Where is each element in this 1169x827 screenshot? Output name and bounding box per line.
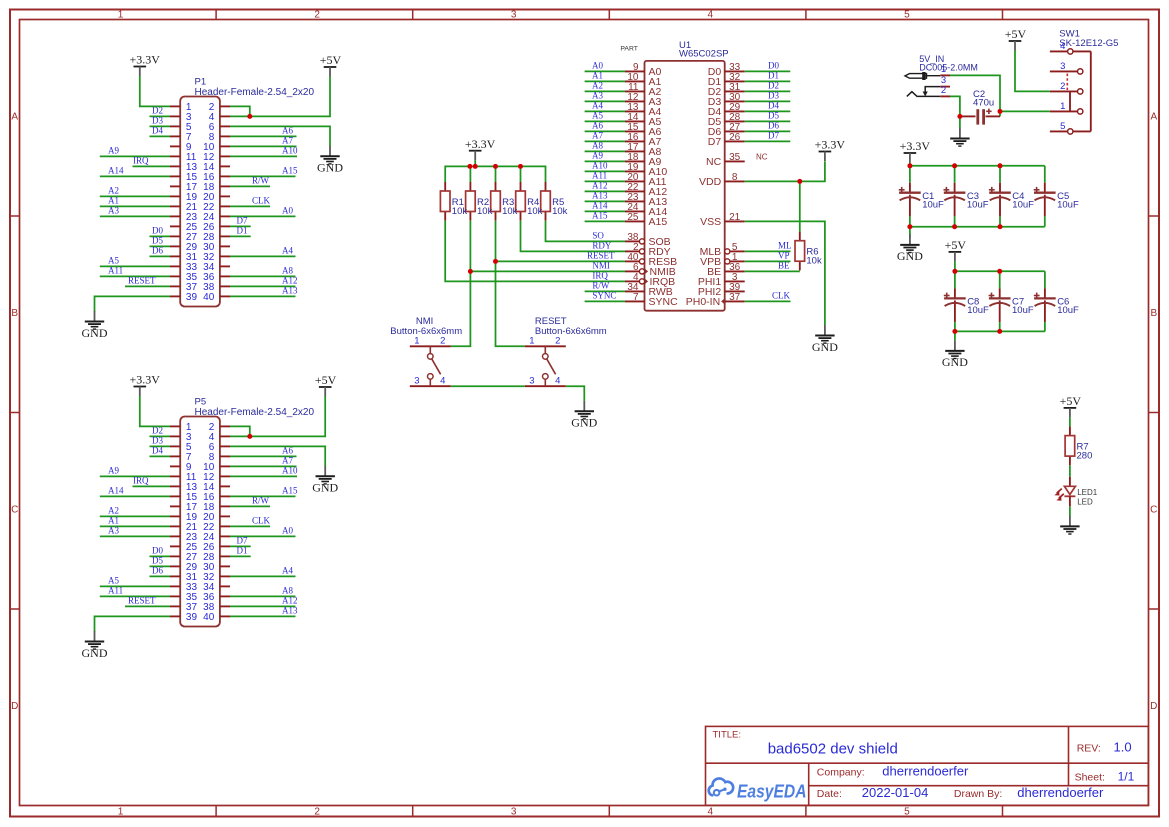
svg-text:A8: A8 bbox=[592, 140, 603, 150]
pin 34 RWB of U1 bbox=[625, 282, 673, 298]
svg-text:5: 5 bbox=[904, 10, 910, 21]
pin 23 A13 of U1 bbox=[625, 192, 667, 208]
svg-text:R/W: R/W bbox=[252, 176, 270, 186]
wire net A11 to U1 bbox=[585, 170, 625, 181]
junction bbox=[907, 224, 912, 229]
svg-text:DC005-2.0MM: DC005-2.0MM bbox=[919, 62, 978, 72]
wire net D1 to P1 pin 28 bbox=[230, 226, 251, 237]
wire net D4 to P5 pin 7 bbox=[150, 446, 171, 457]
pin 3 PHI1 of U1 bbox=[698, 272, 745, 288]
svg-text:SO: SO bbox=[592, 231, 604, 241]
svg-text:A13: A13 bbox=[282, 606, 298, 616]
wire net RESET to P5 pin 37 bbox=[125, 596, 170, 607]
wire net A0 to U1 bbox=[585, 60, 625, 71]
svg-text:A10: A10 bbox=[282, 146, 298, 156]
svg-text:10uF: 10uF bbox=[1057, 199, 1079, 210]
svg-text:A2: A2 bbox=[592, 80, 603, 90]
svg-text:D: D bbox=[1150, 701, 1157, 712]
svg-text:1: 1 bbox=[414, 336, 419, 347]
svg-text:ML: ML bbox=[778, 241, 792, 251]
pin 8 VDD of U1 bbox=[699, 172, 745, 188]
wire net A2 to P5 pin 19 bbox=[100, 506, 170, 517]
wire +5V to R7 bbox=[1069, 417, 1071, 426]
svg-text:21: 21 bbox=[729, 212, 741, 223]
pin 7 SYNC of U1 bbox=[625, 292, 678, 308]
svg-text:470u: 470u bbox=[973, 98, 994, 109]
pin 15 A6 of U1 bbox=[625, 122, 662, 138]
wire net A13 to U1 bbox=[585, 190, 625, 201]
svg-text:A11: A11 bbox=[108, 586, 123, 596]
wire net A1 to P5 pin 21 bbox=[100, 516, 170, 527]
pin 31 D2 of U1 bbox=[708, 82, 745, 98]
svg-text:10k: 10k bbox=[527, 206, 543, 217]
wire net D0 to P5 pin 27 bbox=[150, 546, 171, 557]
svg-text:A11: A11 bbox=[592, 170, 607, 180]
wire net D4 to P1 pin 7 bbox=[150, 126, 171, 137]
svg-text:+3.3V: +3.3V bbox=[815, 138, 846, 152]
pin 24 A14 of U1 bbox=[625, 202, 667, 218]
ground at P1 pin 6 bbox=[317, 146, 343, 175]
svg-text:280: 280 bbox=[1077, 451, 1093, 462]
LED LED1 bbox=[1054, 477, 1097, 507]
resistor R7 280 bbox=[1065, 427, 1092, 466]
svg-text:D5: D5 bbox=[152, 556, 163, 566]
svg-text:PH0-IN: PH0-IN bbox=[686, 296, 720, 308]
svg-text:B: B bbox=[11, 308, 18, 319]
svg-text:3: 3 bbox=[1060, 61, 1065, 72]
svg-text:2: 2 bbox=[941, 85, 946, 96]
svg-text:D2: D2 bbox=[768, 81, 779, 91]
svg-text:37: 37 bbox=[729, 292, 741, 303]
svg-text:GND: GND bbox=[812, 340, 838, 354]
svg-text:10uF: 10uF bbox=[1057, 305, 1079, 316]
wire net A1 to P1 pin 21 bbox=[100, 196, 170, 207]
wire net A8 to P1 pin 36 bbox=[230, 266, 296, 277]
svg-text:Date:: Date: bbox=[817, 788, 842, 800]
junction bbox=[997, 269, 1002, 274]
capacitor C7 10uF bbox=[989, 288, 1034, 322]
wire net A0 to P5 pin 24 bbox=[230, 526, 296, 537]
pin 37 PH0-IN of U1 bbox=[686, 292, 745, 308]
wire jack pin 1 to switch bbox=[950, 75, 1000, 116]
svg-text:REV:: REV: bbox=[1077, 743, 1101, 755]
pin 25 A15 of U1 bbox=[625, 212, 667, 228]
svg-text:CLK: CLK bbox=[252, 196, 271, 206]
svg-text:2022-01-04: 2022-01-04 bbox=[862, 785, 929, 800]
resistor R3 10k bbox=[491, 182, 518, 221]
svg-text:A14: A14 bbox=[108, 486, 124, 496]
svg-text:39: 39 bbox=[186, 612, 198, 623]
svg-text:D4: D4 bbox=[768, 101, 779, 111]
svg-text:dherrendoerfer: dherrendoerfer bbox=[1017, 785, 1104, 800]
wire net A3 to P5 pin 23 bbox=[100, 526, 170, 537]
capacitor C8 10uF bbox=[944, 288, 989, 322]
pin 21 VSS of U1 bbox=[700, 212, 745, 228]
wire +3.3V to P5 pin 1 bbox=[140, 396, 170, 426]
svg-text:A3: A3 bbox=[592, 90, 603, 100]
resistor R6 10k bbox=[795, 232, 822, 271]
svg-text:A5: A5 bbox=[592, 110, 603, 120]
wire net A11 to P1 pin 35 bbox=[100, 266, 170, 277]
capacitor C5 10uF bbox=[1034, 183, 1079, 217]
wire P5 pin 6 to GND bbox=[230, 446, 325, 466]
svg-text:VSS: VSS bbox=[700, 216, 721, 228]
svg-text:39: 39 bbox=[186, 292, 198, 303]
junction bbox=[247, 434, 252, 439]
svg-text:5: 5 bbox=[904, 807, 910, 818]
svg-text:VP: VP bbox=[778, 251, 790, 261]
wire net A9 to P5 pin 11 bbox=[100, 466, 170, 477]
svg-text:10uF: 10uF bbox=[922, 199, 944, 210]
svg-text:A12: A12 bbox=[282, 596, 298, 606]
svg-text:D6: D6 bbox=[152, 246, 163, 256]
wire net VDD to +3.3V bbox=[745, 161, 825, 181]
svg-text:SYNC: SYNC bbox=[649, 296, 679, 308]
pin 17 A8 of U1 bbox=[625, 142, 662, 158]
svg-text:10uF: 10uF bbox=[1012, 199, 1034, 210]
svg-text:D3: D3 bbox=[152, 116, 163, 126]
svg-text:SYNC: SYNC bbox=[592, 291, 616, 301]
svg-text:D5: D5 bbox=[768, 111, 779, 121]
wire net D1 from U1 bbox=[745, 71, 791, 82]
svg-text:A: A bbox=[11, 111, 18, 122]
svg-text:A14: A14 bbox=[108, 166, 124, 176]
svg-text:D3: D3 bbox=[768, 91, 779, 101]
wire jack pin 2 to C2 bbox=[950, 96, 960, 116]
no-connect flag NC on U1 pin 35 bbox=[756, 152, 768, 161]
pin 14 A5 of U1 bbox=[625, 112, 662, 128]
svg-text:Header-Female-2.54_2x20: Header-Female-2.54_2x20 bbox=[195, 87, 315, 98]
pin 29 D4 of U1 bbox=[708, 102, 745, 118]
svg-text:4: 4 bbox=[1060, 41, 1065, 52]
junction bbox=[468, 269, 473, 274]
wire net A15 to P1 pin 16 bbox=[230, 166, 298, 177]
svg-text:A7: A7 bbox=[592, 130, 603, 140]
svg-text:D1: D1 bbox=[237, 546, 248, 556]
wire LED1 to GND bbox=[1069, 506, 1071, 516]
svg-text:2: 2 bbox=[440, 336, 445, 347]
wire net IRQ to P5 pin 13 bbox=[133, 476, 171, 487]
power +5V at capacitor bank 2 bbox=[945, 238, 967, 261]
svg-text:A15: A15 bbox=[649, 216, 668, 228]
svg-text:C: C bbox=[11, 504, 18, 515]
svg-text:A: A bbox=[1150, 111, 1157, 122]
wire net RESET from R3 to U1 RESB and RESET button bbox=[496, 221, 626, 347]
junction bbox=[952, 269, 957, 274]
svg-text:R/W: R/W bbox=[592, 281, 610, 291]
junction bbox=[467, 164, 472, 169]
wire net VP from U1 VPB bbox=[745, 251, 791, 262]
wire net A14 to P1 pin 15 bbox=[100, 166, 170, 177]
svg-text:+3.3V: +3.3V bbox=[130, 373, 161, 387]
svg-text:EasyEDA: EasyEDA bbox=[737, 782, 807, 802]
wire net BE from U1 to R6 bbox=[745, 261, 800, 272]
svg-text:1.0: 1.0 bbox=[1114, 740, 1132, 755]
svg-text:W65C02SP: W65C02SP bbox=[679, 49, 729, 60]
svg-text:D7: D7 bbox=[237, 216, 248, 226]
EasyEDA logo bbox=[709, 778, 807, 801]
junction bbox=[247, 114, 252, 119]
svg-text:A4: A4 bbox=[282, 246, 293, 256]
svg-text:+3.3V: +3.3V bbox=[465, 137, 496, 151]
wire net D2 from U1 bbox=[745, 81, 791, 92]
pin 19 A10 of U1 bbox=[625, 162, 667, 178]
junction bbox=[952, 163, 957, 168]
junction bbox=[952, 224, 957, 229]
wire net RESET to P1 pin 37 bbox=[125, 276, 170, 287]
wire net CLK to U1 PH0-IN bbox=[745, 291, 791, 302]
svg-text:A13: A13 bbox=[592, 190, 608, 200]
svg-text:A4: A4 bbox=[592, 100, 603, 110]
svg-text:8: 8 bbox=[732, 172, 738, 183]
svg-text:P5: P5 bbox=[195, 397, 207, 408]
svg-text:D7: D7 bbox=[768, 131, 779, 141]
power +3.3V at P5 pin 1 bbox=[130, 373, 161, 396]
wire net A10 to P1 pin 12 bbox=[230, 146, 298, 157]
svg-text:PART: PART bbox=[620, 45, 638, 52]
svg-text:D4: D4 bbox=[152, 446, 163, 456]
svg-text:2: 2 bbox=[314, 10, 320, 21]
svg-text:40: 40 bbox=[203, 292, 215, 303]
ground at capacitor bank bbox=[897, 234, 923, 263]
pin 1 VPB of U1 bbox=[700, 252, 745, 268]
svg-text:GND: GND bbox=[317, 161, 343, 175]
svg-text:10uF: 10uF bbox=[1012, 305, 1034, 316]
ground at LED1 bbox=[1060, 516, 1079, 534]
svg-text:A13: A13 bbox=[282, 286, 298, 296]
wire capacitor bank 2 to GND rail bbox=[955, 322, 1045, 340]
svg-text:A1: A1 bbox=[592, 70, 603, 80]
svg-text:Company:: Company: bbox=[817, 767, 865, 779]
pin 27 D6 of U1 bbox=[708, 122, 745, 138]
wire net A8 to U1 bbox=[585, 140, 625, 151]
svg-text:RESET: RESET bbox=[128, 596, 156, 606]
svg-text:10k: 10k bbox=[806, 256, 822, 267]
svg-text:40: 40 bbox=[203, 612, 215, 623]
svg-text:1: 1 bbox=[529, 336, 534, 347]
junction bbox=[797, 179, 802, 184]
svg-text:GND: GND bbox=[571, 416, 597, 430]
switch NMI Button-6x6x6mm bbox=[390, 316, 462, 386]
wire net A5 to U1 bbox=[585, 110, 625, 121]
svg-text:1/1: 1/1 bbox=[1118, 769, 1135, 783]
svg-text:D4: D4 bbox=[152, 126, 163, 136]
op-amp U1 W65C02SP microprocessor bbox=[620, 40, 728, 311]
svg-text:10k: 10k bbox=[477, 206, 493, 217]
pin 36 BE of U1 bbox=[707, 262, 745, 278]
svg-text:LED1: LED1 bbox=[1077, 488, 1098, 497]
svg-text:A9: A9 bbox=[592, 150, 603, 160]
svg-text:A0: A0 bbox=[282, 206, 293, 216]
wire net A10 to P5 pin 12 bbox=[230, 466, 298, 477]
capacitor C6 10uF bbox=[1034, 288, 1079, 322]
svg-text:A5: A5 bbox=[108, 256, 119, 266]
wire net D2 to P5 pin 3 bbox=[150, 426, 171, 437]
svg-text:D6: D6 bbox=[768, 121, 779, 131]
svg-text:A15: A15 bbox=[282, 486, 298, 496]
wire net SO from R5 to U1 bbox=[546, 221, 626, 242]
svg-text:GND: GND bbox=[82, 326, 108, 340]
wire net CLK to P5 pin 22 bbox=[230, 516, 271, 527]
wire +3.3V capacitor rail bbox=[910, 163, 1045, 183]
svg-text:A9: A9 bbox=[108, 466, 119, 476]
svg-text:25: 25 bbox=[627, 212, 639, 223]
svg-text:Button-6x6x6mm: Button-6x6x6mm bbox=[390, 326, 462, 337]
junction bbox=[518, 164, 523, 169]
wire net D7 to P1 pin 26 bbox=[230, 216, 251, 227]
wire net A5 to P5 pin 33 bbox=[100, 576, 170, 587]
wire capacitor bank to GND rail bbox=[910, 216, 1045, 237]
pin 13 A4 of U1 bbox=[625, 102, 662, 118]
wire net D7 to P5 pin 26 bbox=[230, 536, 251, 547]
wire net D4 from U1 bbox=[745, 101, 791, 112]
svg-text:B: B bbox=[1150, 308, 1157, 319]
pin 11 A2 of U1 bbox=[625, 82, 662, 98]
svg-text:D0: D0 bbox=[768, 61, 779, 71]
svg-text:NC: NC bbox=[706, 156, 722, 168]
wire net A2 to U1 bbox=[585, 80, 625, 91]
wire P5 pin 2 to +5V net bbox=[230, 426, 250, 436]
svg-text:NC: NC bbox=[756, 152, 768, 161]
pin 12 A3 of U1 bbox=[625, 92, 662, 108]
power +3.3V at capacitor bank bbox=[900, 139, 931, 162]
wire net RDY from R4 to U1 bbox=[521, 221, 626, 252]
svg-text:A1: A1 bbox=[108, 516, 119, 526]
svg-text:4: 4 bbox=[708, 10, 714, 21]
svg-text:3: 3 bbox=[511, 807, 517, 818]
pin 20 A11 of U1 bbox=[625, 172, 667, 188]
svg-text:P1: P1 bbox=[195, 77, 207, 88]
pin 18 A9 of U1 bbox=[625, 152, 662, 168]
wire net A7 to P1 pin 10 bbox=[230, 136, 297, 147]
pin 26 D7 of U1 bbox=[708, 132, 745, 148]
svg-text:TITLE:: TITLE: bbox=[713, 729, 742, 740]
junction bbox=[473, 164, 478, 169]
wire net A12 to U1 bbox=[585, 180, 625, 191]
svg-text:4: 4 bbox=[708, 807, 714, 818]
svg-text:A6: A6 bbox=[592, 120, 603, 130]
junction bbox=[493, 259, 498, 264]
svg-text:35: 35 bbox=[729, 152, 741, 163]
svg-text:+3.3V: +3.3V bbox=[900, 139, 931, 153]
pin 40 RESB of U1 bbox=[625, 252, 677, 268]
svg-text:GND: GND bbox=[82, 646, 108, 660]
wire net A13 to P5 pin 40 bbox=[230, 606, 298, 617]
wire +5V capacitor rail bbox=[955, 261, 1045, 288]
wire net D5 to P5 pin 29 bbox=[150, 556, 171, 567]
svg-text:4: 4 bbox=[555, 376, 560, 387]
wire net R/W to P5 pin 18 bbox=[230, 496, 270, 507]
svg-text:1: 1 bbox=[118, 10, 124, 21]
pin 16 A7 of U1 bbox=[625, 132, 662, 148]
wire net A7 to P5 pin 10 bbox=[230, 456, 297, 467]
pin 9 A0 of U1 bbox=[625, 62, 662, 78]
svg-text:A0: A0 bbox=[282, 526, 293, 536]
wire net D5 to P1 pin 29 bbox=[150, 236, 171, 247]
wire net D2 to P1 pin 3 bbox=[150, 106, 171, 117]
junction bbox=[952, 329, 957, 334]
svg-text:C: C bbox=[1150, 504, 1157, 515]
wire net NMI from R2 to U1 NMIB and NMI button bbox=[451, 221, 625, 347]
pin 32 D1 of U1 bbox=[708, 72, 745, 88]
pin 5 MLB of U1 bbox=[700, 242, 745, 258]
svg-text:10k: 10k bbox=[452, 206, 468, 217]
pin 6 NMIB of U1 bbox=[625, 262, 676, 278]
ground at C2 bbox=[950, 116, 969, 146]
svg-text:A14: A14 bbox=[592, 200, 608, 210]
wire net A9 to P1 pin 11 bbox=[100, 146, 170, 157]
svg-text:D5: D5 bbox=[152, 236, 163, 246]
svg-text:A15: A15 bbox=[592, 210, 608, 220]
connector J1 5V_IN DC005-2.0MM barrel jack bbox=[905, 54, 978, 97]
svg-text:D6: D6 bbox=[152, 566, 163, 576]
wire R7 to LED1 bbox=[1069, 465, 1071, 477]
capacitor C4 10uF bbox=[989, 183, 1034, 217]
wire net A0 to P1 pin 24 bbox=[230, 206, 296, 217]
ground at P5 pin 6 bbox=[312, 466, 338, 495]
pin 2 RDY of U1 bbox=[625, 242, 671, 258]
wire net D1 to P5 pin 28 bbox=[230, 546, 251, 557]
pin 28 D5 of U1 bbox=[708, 112, 745, 128]
svg-text:D3: D3 bbox=[152, 436, 163, 446]
wire net A8 to P5 pin 36 bbox=[230, 586, 296, 597]
pin 39 PHI2 of U1 bbox=[698, 282, 745, 298]
junction bbox=[493, 164, 498, 169]
svg-text:D0: D0 bbox=[152, 546, 163, 556]
wire net A6 to U1 bbox=[585, 120, 625, 131]
svg-text:A10: A10 bbox=[592, 160, 608, 170]
svg-text:2: 2 bbox=[555, 336, 560, 347]
junction bbox=[907, 163, 912, 168]
wire net A6 to P5 pin 8 bbox=[230, 446, 297, 457]
svg-text:10k: 10k bbox=[502, 206, 518, 217]
svg-text:A3: A3 bbox=[108, 526, 119, 536]
svg-text:4: 4 bbox=[440, 376, 445, 387]
svg-text:+5V: +5V bbox=[1005, 27, 1027, 41]
wire +3.3V to P1 pin 1 bbox=[140, 76, 170, 106]
wire net A12 to P5 pin 38 bbox=[230, 596, 298, 607]
junction bbox=[998, 163, 1003, 168]
svg-text:+5V: +5V bbox=[1060, 394, 1082, 408]
wire P1 pin 2 to +5V net bbox=[230, 106, 250, 116]
wire net ML from U1 MLB bbox=[745, 241, 792, 252]
wire net IRQ from R1 to U1 IRQB bbox=[445, 221, 625, 282]
svg-text:Drawn By:: Drawn By: bbox=[954, 788, 1002, 800]
svg-text:10uF: 10uF bbox=[967, 305, 989, 316]
svg-text:D7: D7 bbox=[708, 136, 722, 148]
svg-text:GND: GND bbox=[897, 249, 923, 263]
svg-text:A5: A5 bbox=[108, 576, 119, 586]
svg-text:A12: A12 bbox=[592, 180, 608, 190]
wire net A4 to P1 pin 32 bbox=[230, 246, 296, 257]
power +3.3V at U1 VDD bbox=[815, 138, 846, 161]
svg-text:2: 2 bbox=[314, 807, 320, 818]
power +5V at P1 pin 4 bbox=[320, 53, 342, 76]
svg-text:A8: A8 bbox=[282, 586, 293, 596]
svg-text:+5V: +5V bbox=[315, 373, 337, 387]
wire net A2 to P1 pin 19 bbox=[100, 186, 170, 197]
svg-text:Button-6x6x6mm: Button-6x6x6mm bbox=[535, 326, 607, 337]
wire net A9 to U1 bbox=[585, 150, 625, 161]
svg-text:Header-Female-2.54_2x20: Header-Female-2.54_2x20 bbox=[195, 407, 315, 418]
power +5V at LED resistor bbox=[1060, 394, 1082, 417]
svg-text:A9: A9 bbox=[108, 146, 119, 156]
svg-text:D1: D1 bbox=[768, 71, 779, 81]
power +5V at switch bbox=[1005, 27, 1027, 50]
svg-text:A8: A8 bbox=[282, 266, 293, 276]
svg-text:26: 26 bbox=[729, 132, 741, 143]
svg-text:A15: A15 bbox=[282, 166, 298, 176]
